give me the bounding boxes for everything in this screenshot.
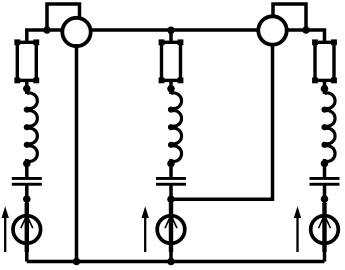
wire: G1 bottom to bottom rail	[75, 44, 79, 262]
machine G2 (right circle)	[258, 16, 286, 44]
wire: middle branch top stub	[169, 30, 173, 43]
node A junction dot	[43, 26, 51, 34]
current source I3	[311, 203, 339, 252]
junction dot: bottom rail at middle branch	[167, 258, 175, 266]
wire: C1 bottom through source I1 to bottom rail	[25, 185, 29, 262]
wire: L3 bottom stub	[323, 159, 327, 178]
wire: bypass loop over machine G1	[47, 4, 80, 30]
junction dot below L3	[321, 160, 329, 168]
junction dot below L1	[23, 160, 31, 168]
current direction arrow for I3	[294, 206, 301, 252]
wire: left branch top (resistor R1 top to node A)	[27, 30, 63, 43]
current direction arrow for I2	[142, 206, 149, 252]
wire: R1 bottom stub	[25, 80, 29, 94]
junction dot below R1	[23, 85, 31, 93]
resistor R3	[312, 39, 337, 83]
resistor R2	[159, 39, 184, 83]
capacitor C3	[310, 177, 340, 186]
junction dot below L2	[167, 160, 175, 168]
wire: C2 bottom through source I2 to bottom rail	[169, 185, 173, 262]
current direction arrow for I1	[2, 206, 9, 252]
wire: bottom rail	[27, 260, 325, 264]
wire: bypass loop over machine G2	[273, 4, 306, 30]
wire: G2 bottom down and left to middle branch node C	[171, 44, 273, 199]
wire: L1 bottom stub	[25, 159, 29, 178]
junction dot: bottom rail at G1 wire	[73, 258, 81, 266]
inductor L3	[323, 93, 335, 161]
current source I1	[13, 203, 41, 252]
junction dot below R2	[167, 85, 175, 93]
junction dot below C1	[23, 195, 31, 203]
junction dot: middle branch tap on top rail	[167, 27, 175, 35]
wire: top rail between G1 and G2	[91, 28, 259, 32]
junction dot below R3	[321, 85, 329, 93]
node C junction dot (connector from G2)	[167, 196, 175, 204]
current source I2	[157, 203, 185, 252]
wire: R3 bottom stub	[323, 80, 327, 94]
resistor R1	[14, 39, 39, 83]
node B junction dot	[302, 26, 310, 34]
inductor L2	[170, 93, 182, 161]
capacitor C1	[12, 177, 42, 186]
inductor L1	[25, 93, 37, 161]
machine G1 (left circle)	[62, 18, 90, 46]
junction dot below C3	[321, 195, 329, 203]
wire: C3 bottom through source I3 to bottom rail	[323, 185, 327, 262]
wire: G2 right to node B and right branch top	[287, 30, 325, 43]
wire: L2 bottom stub	[169, 159, 173, 178]
wire: R2 bottom stub	[169, 80, 173, 94]
capacitor C2	[156, 177, 186, 186]
